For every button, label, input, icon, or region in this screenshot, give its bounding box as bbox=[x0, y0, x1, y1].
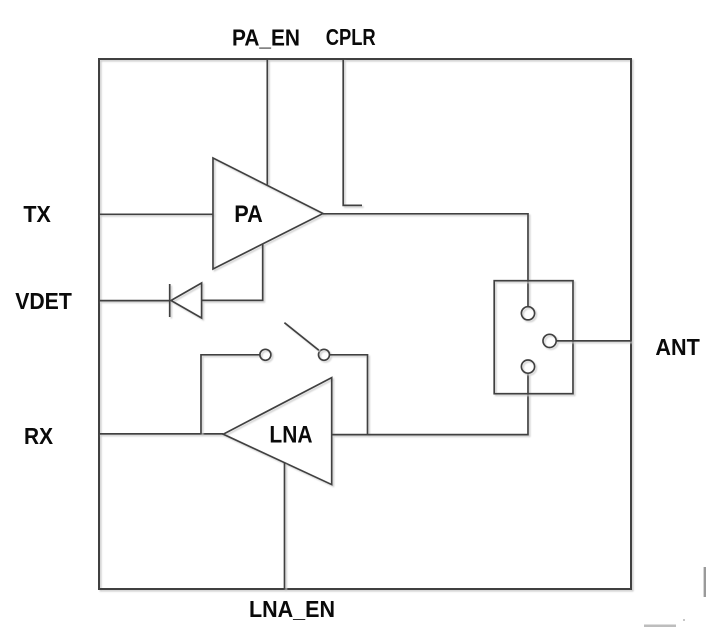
wire LNA output to antenna switch bbox=[332, 373, 528, 434]
amplifier PA bbox=[213, 158, 323, 269]
svg-text:LNA_EN: LNA_EN bbox=[249, 596, 335, 622]
antenna switch port top bbox=[521, 307, 534, 320]
wire TX bbox=[99, 213, 213, 215]
svg-text:VDET: VDET bbox=[15, 288, 72, 314]
wire switch left branch bbox=[201, 355, 260, 434]
wire PA_EN bbox=[266, 59, 268, 185]
wire LNA_EN bbox=[284, 463, 286, 589]
switch arm bbox=[284, 323, 319, 351]
svg-text:TX: TX bbox=[23, 201, 51, 227]
svg-text:CPLR: CPLR bbox=[326, 24, 376, 50]
svg-text:ANT: ANT bbox=[655, 334, 699, 360]
svg-text:RX: RX bbox=[24, 423, 54, 449]
antenna switch box bbox=[494, 281, 573, 394]
wire switch right branch bbox=[330, 355, 368, 435]
wire CPLR bbox=[343, 59, 362, 205]
svg-text:LNA: LNA bbox=[269, 421, 312, 448]
switch contact left bbox=[260, 349, 271, 360]
wire PA output to antenna switch bbox=[323, 214, 528, 307]
antenna switch port bottom bbox=[521, 360, 534, 373]
svg-text:PA: PA bbox=[234, 201, 263, 228]
svg-text:PA_EN: PA_EN bbox=[232, 24, 300, 50]
wire RX bbox=[99, 433, 223, 435]
diode D1 bbox=[170, 283, 202, 318]
wire diode to PA bbox=[202, 244, 263, 301]
wire ANT bbox=[556, 340, 631, 342]
antenna switch port middle bbox=[543, 334, 556, 347]
module boundary box bbox=[99, 59, 631, 589]
wire VDET bbox=[99, 300, 170, 302]
switch contact right bbox=[319, 349, 330, 360]
amplifier LNA bbox=[223, 378, 332, 485]
